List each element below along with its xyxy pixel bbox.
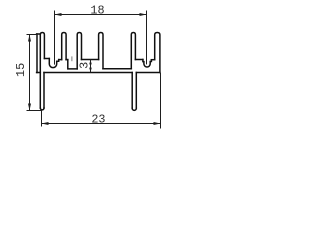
dim 23 left extension line [41, 110, 43, 127]
dim 18 right extension line [146, 11, 148, 65]
svg-text:18: 18 [90, 3, 104, 17]
dim 23 line [42, 123, 161, 125]
arrow dim3 top [89, 60, 92, 65]
arrow dim15 bottom [28, 104, 31, 111]
left wall lip rounded bottom tip [40, 108, 44, 110]
svg-text:3: 3 [78, 62, 92, 69]
arrow dim3 bottom [89, 68, 92, 73]
floor between F1 and screw slot S1 [44, 58, 49, 60]
floor between F3 and F4 [82, 59, 99, 61]
svg-text:23: 23 [91, 113, 105, 127]
left flange top edge [37, 33, 41, 35]
channel A between F2 and F3 (deep, open) [68, 60, 77, 69]
left flange bottom edge [37, 72, 41, 74]
svg-text:15: 15 [14, 63, 28, 77]
left wall lip right edge [43, 73, 45, 109]
fin F2 [62, 33, 66, 60]
arrow dim18 right [140, 13, 147, 16]
dim 15 bottom extension line [27, 110, 42, 112]
arrow dim23 left [42, 122, 49, 125]
fin F4 (right edge reaches channel B bottom) [99, 33, 103, 69]
bottom fin rounded tip [132, 108, 136, 110]
fin F5 (left edge reaches channel B bottom) [131, 33, 135, 69]
floor between F5 and screw slot S2 [135, 59, 143, 61]
arrow dim23 right [154, 122, 161, 125]
dim 18 left extension line [54, 11, 56, 65]
dim 15 top extension line [27, 34, 38, 36]
screw slot S1 (wide opening, rounded bottom, right shelf) [49, 59, 58, 68]
fin F6 / right wall [155, 33, 160, 73]
arrow dim18 left [55, 13, 62, 16]
dim 18 line [55, 14, 147, 16]
base bottom left segment [44, 72, 132, 74]
left flange outer edge [36, 34, 38, 73]
left wall / fin F1 with rounded top [40, 33, 44, 109]
shelf right of F2 [66, 59, 68, 61]
dim 23 right extension line [160, 73, 162, 129]
fin F3 (left edge reaches channel bottom) [77, 33, 81, 69]
bottom fin (down) right edge [135, 73, 137, 109]
bottom fin (down) left edge [131, 73, 133, 109]
screw slot S2 (stepped opening, rounded bottom, shelves) [143, 60, 152, 68]
floor between S1 and fin F2 [59, 59, 62, 61]
floor between S2 and fin F6 [151, 59, 154, 61]
channel B between F4 and F5 (deep, wide, open) [103, 68, 131, 70]
base bottom right segment [136, 72, 160, 74]
dim 15 line [29, 35, 31, 111]
small rib in channel A [71, 56, 73, 61]
arrow dim15 top [28, 35, 31, 42]
dim 3 line [90, 60, 92, 73]
